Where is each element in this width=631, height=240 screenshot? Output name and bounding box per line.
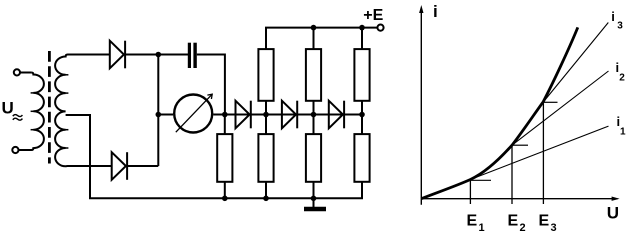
svg-text:i: i — [433, 2, 438, 21]
svg-text:E: E — [508, 213, 519, 230]
svg-text:E: E — [539, 213, 550, 230]
svg-text:1: 1 — [620, 127, 626, 138]
svg-text:3: 3 — [551, 222, 557, 234]
svg-text:+E: +E — [363, 7, 383, 24]
svg-text:2: 2 — [619, 72, 625, 83]
svg-text:E: E — [467, 213, 478, 230]
svg-text:i: i — [611, 9, 615, 24]
svg-text:3: 3 — [617, 21, 623, 32]
svg-text:1: 1 — [479, 222, 485, 234]
svg-text:U: U — [607, 204, 619, 223]
svg-text:U: U — [2, 99, 14, 118]
svg-text:2: 2 — [520, 222, 526, 234]
